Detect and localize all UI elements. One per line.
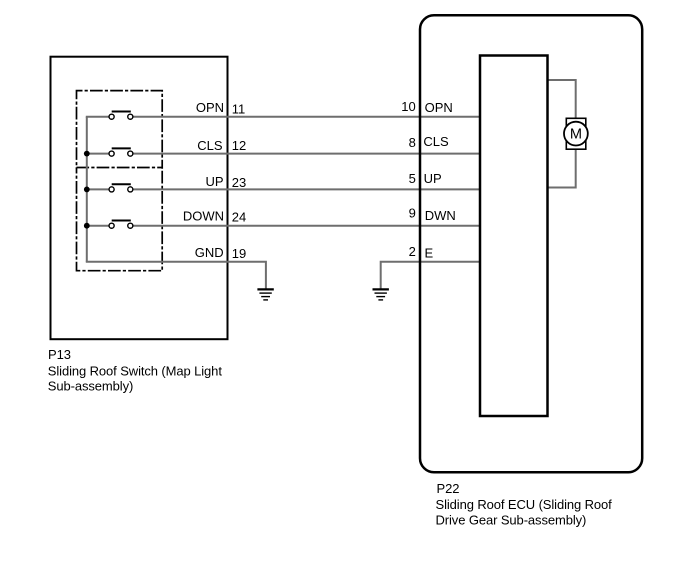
svg-text:CLS: CLS <box>197 138 223 153</box>
svg-text:24: 24 <box>232 210 246 225</box>
svg-text:P22: P22 <box>437 481 460 496</box>
svg-text:DWN: DWN <box>425 208 456 223</box>
svg-text:23: 23 <box>232 175 246 190</box>
svg-text:UP: UP <box>205 174 223 189</box>
svg-text:M: M <box>570 126 582 142</box>
svg-text:9: 9 <box>409 206 416 221</box>
svg-text:Sliding Roof Switch (Map Light: Sliding Roof Switch (Map Light <box>48 364 223 379</box>
svg-text:Sub-assembly): Sub-assembly) <box>48 379 133 394</box>
svg-text:Drive Gear Sub-assembly): Drive Gear Sub-assembly) <box>436 513 587 528</box>
svg-text:P13: P13 <box>48 347 71 362</box>
svg-text:UP: UP <box>424 171 442 186</box>
svg-text:DOWN: DOWN <box>183 208 224 223</box>
svg-text:E: E <box>425 245 434 260</box>
svg-text:11: 11 <box>232 101 246 116</box>
svg-text:19: 19 <box>232 246 246 261</box>
svg-text:5: 5 <box>409 171 416 186</box>
svg-text:GND: GND <box>195 245 224 260</box>
svg-text:12: 12 <box>232 138 246 153</box>
svg-text:CLS: CLS <box>423 134 449 149</box>
svg-text:10: 10 <box>401 99 415 114</box>
svg-text:OPN: OPN <box>196 100 224 115</box>
svg-text:OPN: OPN <box>425 100 453 115</box>
svg-text:8: 8 <box>409 135 416 150</box>
svg-text:Sliding Roof ECU (Sliding Roof: Sliding Roof ECU (Sliding Roof <box>436 497 613 512</box>
svg-text:2: 2 <box>409 244 416 259</box>
